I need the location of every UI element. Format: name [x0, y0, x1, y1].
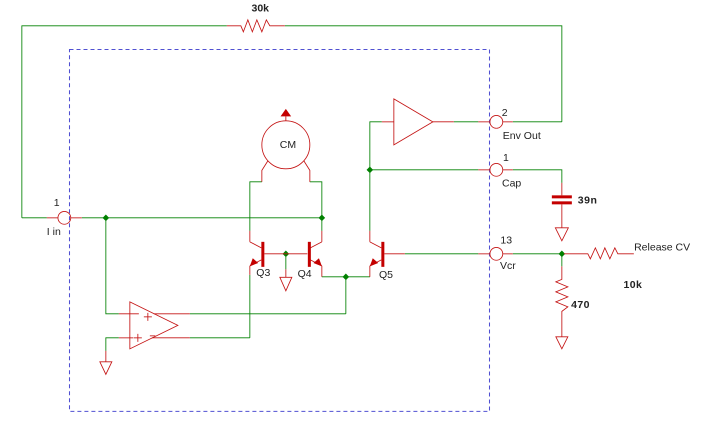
- svg-text:Env Out: Env Out: [503, 130, 541, 142]
- svg-text:1: 1: [503, 152, 509, 164]
- svg-text:Q4: Q4: [298, 268, 312, 280]
- svg-text:13: 13: [500, 235, 512, 247]
- svg-text:10k: 10k: [624, 279, 643, 291]
- svg-text:470: 470: [571, 299, 590, 311]
- svg-text:Q5: Q5: [379, 269, 393, 281]
- svg-text:I in: I in: [47, 226, 61, 238]
- svg-text:Q3: Q3: [256, 267, 270, 279]
- svg-text:39n: 39n: [578, 195, 598, 207]
- svg-text:1: 1: [54, 197, 60, 209]
- svg-text:2: 2: [502, 107, 508, 119]
- svg-text:30k: 30k: [252, 3, 270, 15]
- svg-text:Cap: Cap: [502, 178, 521, 190]
- svg-text:Release CV: Release CV: [634, 242, 690, 254]
- svg-text:Vcr: Vcr: [500, 260, 516, 272]
- svg-text:CM: CM: [280, 139, 296, 151]
